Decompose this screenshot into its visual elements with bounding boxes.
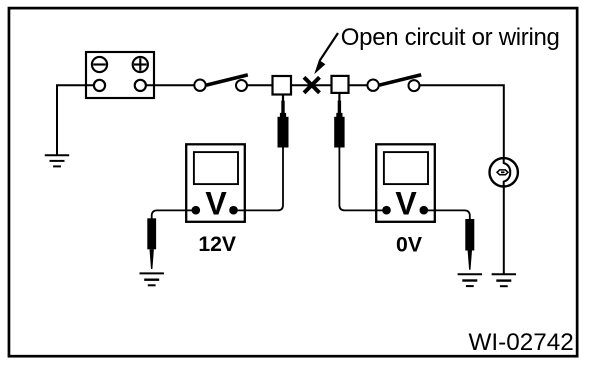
voltmeter M2: [376, 144, 435, 222]
lamp L1: [490, 158, 518, 186]
probe P3 (voltmeter2 ground probe, tip down): [465, 219, 474, 270]
wire: battery negative to ground: [57, 85, 94, 155]
probe P1 (under box1, tip up): [278, 95, 289, 148]
probe P2 (under box2, tip up): [334, 93, 344, 148]
connector box2: [332, 76, 349, 93]
wire: box1 to box2 (through open point): [291, 84, 332, 86]
connector box1: [273, 76, 292, 95]
wire: probe P2 to voltmeter2 + terminal: [339, 147, 386, 210]
wire: battery positive to switch SW1: [146, 84, 194, 86]
ground G3 (probe P3): [458, 274, 482, 286]
wire: SW2 to lamp: [420, 85, 504, 158]
svg-text:0V: 0V: [396, 234, 422, 257]
svg-text:V: V: [395, 186, 417, 222]
wire: probe P1 to voltmeter1 + terminal: [233, 147, 283, 210]
ground G4 (lamp): [492, 274, 516, 286]
wire: SW1 to connector box1: [247, 84, 273, 86]
voltmeter M1: [186, 144, 245, 222]
svg-text:WI-02742: WI-02742: [468, 329, 573, 356]
annotation arrow to X: [320, 33, 338, 61]
wire: lamp to ground: [503, 186, 505, 274]
battery B1: [86, 52, 154, 98]
svg-text:Open circuit or wiring: Open circuit or wiring: [341, 24, 560, 51]
ground G1 (battery): [45, 155, 69, 166]
svg-text:12V: 12V: [198, 233, 236, 256]
wire: box2 to switch SW2: [349, 84, 368, 86]
svg-text:V: V: [205, 186, 227, 222]
switch SW2: [367, 75, 421, 91]
switch SW1: [194, 75, 248, 91]
probe P4 (voltmeter1 ground probe, tip down): [147, 218, 156, 269]
voltmeter M1 terminals: [192, 206, 201, 215]
X open-circuit mark: [304, 77, 320, 93]
ground G2 (probe P4): [140, 273, 164, 285]
wire: voltmeter1 - terminal to probe P4: [152, 210, 196, 218]
wire: voltmeter2 - terminal to probe P3: [424, 210, 470, 219]
voltmeter M2 terminals: [382, 206, 391, 215]
